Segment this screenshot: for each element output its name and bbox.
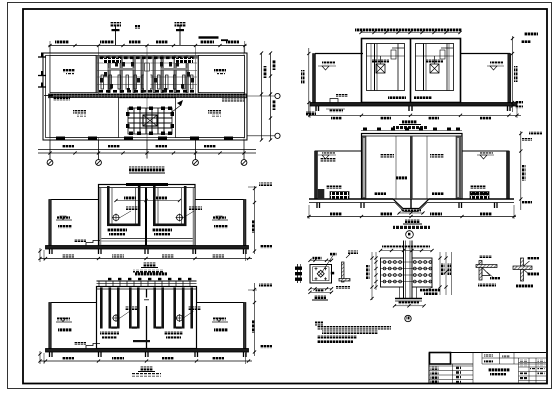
section 1-1 side walls <box>313 54 511 103</box>
plan left rooms <box>50 56 96 93</box>
section 3 bottom dimension <box>40 250 252 261</box>
section 4 central box <box>97 287 197 349</box>
section 1-1 mixers <box>372 56 443 73</box>
section 2-2 floor slab and hopper <box>309 199 514 215</box>
section 3 inner tanks <box>99 186 195 246</box>
section 2-2 central box <box>362 134 463 200</box>
section 1-1 bottom dimension <box>308 106 521 120</box>
plan central sump cluster <box>126 100 183 135</box>
weld detail 1 <box>476 255 500 280</box>
section 4 steps <box>74 342 100 349</box>
section 3 central box <box>99 183 196 246</box>
section 2-2 bottom dimension <box>307 205 516 219</box>
section 4 left dim stub <box>38 351 41 364</box>
plan right room top <box>199 56 245 93</box>
column splice callout <box>405 315 411 321</box>
plan bottom-right room <box>176 98 245 138</box>
section 2-2 detail callout circle <box>406 231 414 239</box>
section 2-2 side walls <box>315 151 510 199</box>
section 1-1 title <box>393 120 427 130</box>
plan central equipment area <box>96 56 200 93</box>
plan right dimension verticals <box>260 51 276 141</box>
section 4 bottom dimension <box>40 353 252 364</box>
plan left axis ticks <box>38 53 46 88</box>
plan outer wall <box>43 53 247 140</box>
plan bottom dimension lines <box>38 145 256 155</box>
section 3 tank dim line <box>114 197 181 203</box>
section 3 floor slab <box>46 246 249 255</box>
title block frame <box>429 353 546 385</box>
section 1-1 cell internals <box>375 44 454 91</box>
title block right table <box>519 358 547 384</box>
notes block <box>315 322 391 344</box>
anchor plate detail <box>308 253 336 294</box>
section 3 left dim stub <box>38 248 41 262</box>
section 4 right elevation scale <box>248 283 272 356</box>
section 1-1 left elevation scale <box>301 48 316 116</box>
plan grid lines <box>50 46 244 159</box>
title block left stamp column <box>430 353 474 385</box>
section 4 hanging baffles <box>100 288 193 343</box>
angle detail <box>336 251 358 290</box>
section 2-2 inner lines <box>374 136 444 199</box>
section 4 circles <box>112 314 184 322</box>
section 1-1 base slab <box>310 103 517 112</box>
section 2-2 pumps <box>326 186 489 200</box>
section 4 handrail <box>97 278 197 287</box>
section 1-1 elevation flags <box>318 62 504 100</box>
section 1-1 right elevation scale <box>511 33 538 113</box>
section 4 plate labels <box>100 331 183 339</box>
plan bottom wall openings <box>56 137 233 141</box>
section 4 bay labels <box>56 318 228 332</box>
plan section cut marks top <box>175 22 186 45</box>
section 2-2 top tick row <box>361 128 462 131</box>
column base flange <box>393 287 440 307</box>
section 1-1 central box <box>362 39 461 103</box>
section 1-1 step at left <box>326 94 348 113</box>
plan right row bubbles <box>247 93 281 138</box>
plan mid wall <box>49 94 247 98</box>
title block middle cells <box>482 353 546 365</box>
section 4 title <box>131 367 161 377</box>
column splice left dims <box>366 252 378 300</box>
section 2-2 right elevation scale <box>519 131 542 210</box>
section 3 leader arrows <box>120 207 202 218</box>
section 3 side walls <box>49 200 246 246</box>
plan bottom-left room <box>44 94 119 137</box>
section 4 floor slab <box>46 349 249 358</box>
section 3 steps <box>74 239 100 246</box>
section 1-1 inner tanks <box>367 44 454 91</box>
anchor plate title <box>312 295 328 300</box>
column splice detail column <box>404 241 413 299</box>
column splice top dims <box>379 246 434 253</box>
section 2-2 left small labels <box>320 154 444 162</box>
section 4 leaders <box>120 307 201 319</box>
weld detail 2 <box>513 257 539 288</box>
section 3 tank labels <box>107 229 172 237</box>
section 3 tank circles <box>112 214 184 222</box>
section 1-1 top dimension row <box>355 29 462 35</box>
title block drawing title text <box>488 368 510 376</box>
section 3 right elevation scale <box>248 183 272 255</box>
plan top dimension line <box>48 41 246 54</box>
column splice plates and bolts <box>381 258 433 287</box>
section 2-2 title <box>393 219 430 229</box>
anchor plate side channel <box>295 264 302 283</box>
plan axis bubbles <box>47 140 247 165</box>
section 3 title <box>133 263 163 273</box>
section 4 top title (above rail) <box>135 272 167 276</box>
section 2-2 under-slab supports <box>317 203 497 209</box>
plan title <box>129 167 165 174</box>
section 3 bay labels <box>56 216 228 229</box>
column splice right dims <box>438 252 451 295</box>
section 2-2 elevation flags <box>318 151 494 200</box>
plan top black bar <box>135 25 228 41</box>
section 4 side walls <box>49 303 246 349</box>
weld detail 1 title <box>478 283 496 287</box>
